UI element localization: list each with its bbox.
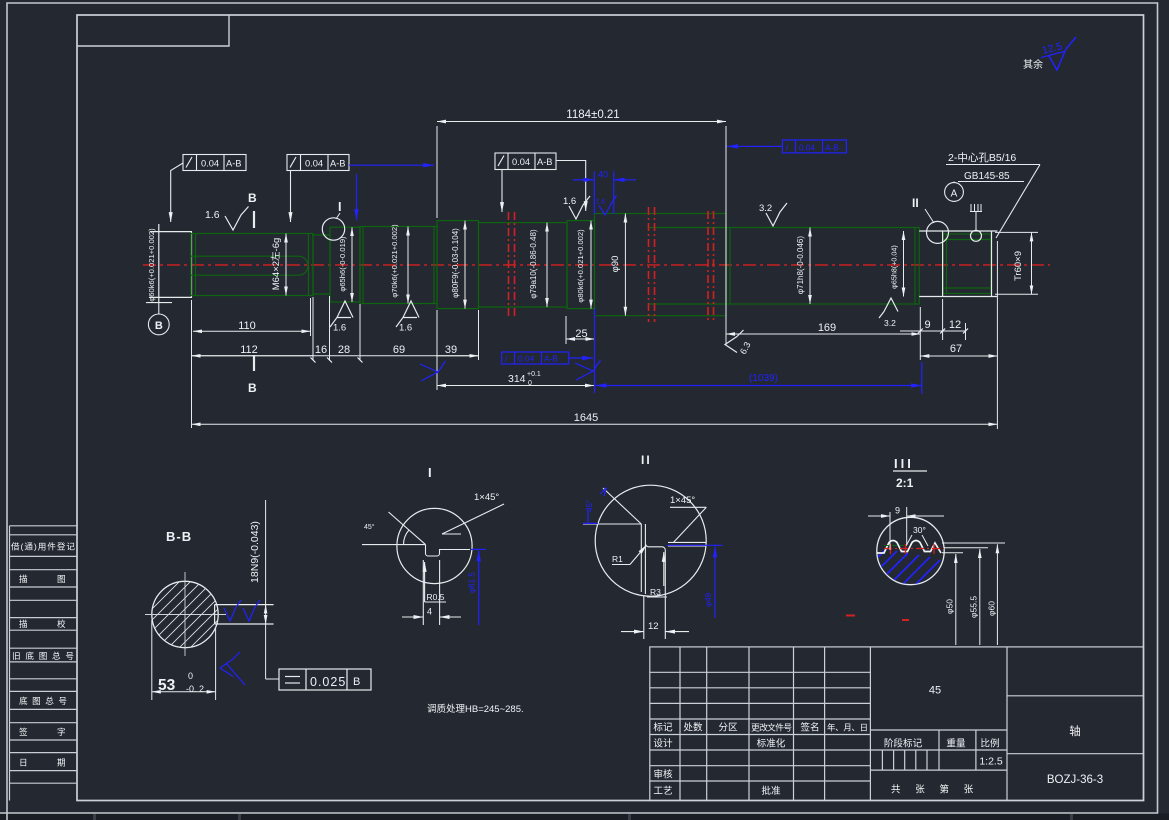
svg-text:1×45°: 1×45° (474, 492, 499, 503)
svg-text:字: 字 (57, 726, 66, 737)
svg-text:调质处理HB=245~285.: 调质处理HB=245~285. (427, 703, 524, 715)
svg-text:169: 169 (818, 322, 836, 334)
dim 1184 extension lines (436, 126, 438, 218)
leader diagonal from note to shaft end (996, 165, 1040, 239)
svg-text:φ79a10(-0.86-0.48): φ79a10(-0.86-0.48) (529, 229, 538, 299)
phi65 dim line (351, 227, 353, 302)
B-B centerlines (145, 572, 226, 656)
roughness symbols (white) (225, 196, 898, 353)
svg-text:1:2.5: 1:2.5 (979, 756, 1003, 768)
svg-text:BOZJ-36-3: BOZJ-36-3 (1047, 774, 1103, 786)
svg-text:+0.1: +0.1 (527, 371, 541, 378)
title block grid (650, 647, 1144, 801)
svg-text:1.6: 1.6 (205, 209, 220, 221)
section cut B-B marks (253, 211, 255, 371)
phi90 dim line (624, 214, 626, 316)
svg-text:B-B: B-B (166, 529, 192, 544)
Tr60x9 worm thread section (943, 234, 991, 294)
svg-text:φ60: φ60 (987, 601, 997, 616)
rotated diameter texts (147, 224, 1024, 303)
svg-text:期: 期 (57, 758, 66, 768)
hidden keyway edges phi90 section left (648, 207, 650, 322)
svg-text:45°: 45° (585, 500, 594, 512)
svg-text:0.04: 0.04 (512, 157, 530, 167)
left strip labels (11, 541, 75, 768)
svg-text:12: 12 (648, 621, 659, 632)
svg-text:0: 0 (528, 380, 532, 387)
leaders of GD&T frames (171, 163, 183, 222)
svg-text:A-B: A-B (330, 159, 346, 169)
svg-text:重量: 重量 (946, 738, 966, 750)
svg-text:签名: 签名 (800, 722, 819, 734)
svg-text:3.2: 3.2 (884, 318, 896, 328)
svg-text:φ80F9(-0.03-0.104): φ80F9(-0.03-0.104) (451, 228, 460, 298)
svg-text:1.6: 1.6 (399, 323, 412, 334)
svg-text:标记: 标记 (653, 722, 673, 734)
svg-text:工艺: 工艺 (653, 786, 672, 797)
svg-text:φ65h6(-0-0.019): φ65h6(-0-0.019) (338, 236, 347, 292)
svg-text:A-B: A-B (537, 157, 553, 167)
other-surfaces roughness note top-right (1023, 37, 1076, 71)
svg-text:II: II (912, 196, 919, 210)
detail I circle on groove (322, 218, 344, 240)
phi80k6 dim line (590, 221, 592, 309)
svg-text:314: 314 (508, 373, 526, 385)
svg-text:67: 67 (950, 343, 962, 355)
blue dims detail II (583, 488, 722, 619)
svg-text:30°: 30° (913, 525, 926, 535)
svg-text:分区: 分区 (718, 723, 738, 734)
svg-text:年、月、日: 年、月、日 (827, 723, 868, 733)
phi50/55.5/60 dims (942, 543, 1005, 645)
detail II circle (927, 221, 949, 243)
svg-text:0.04: 0.04 (518, 354, 535, 364)
svg-text:图: 图 (57, 574, 66, 584)
svg-text:18N9(-0.043): 18N9(-0.043) (249, 521, 261, 583)
svg-text:0.04: 0.04 (305, 159, 323, 169)
blue GD&T frame lower (502, 352, 569, 364)
svg-text:日: 日 (19, 758, 28, 768)
hidden keyway lines in phi90 section (649, 227, 726, 229)
svg-text:φ50: φ50 (945, 599, 955, 614)
svg-text:Tr60×9: Tr60×9 (1013, 251, 1024, 281)
svg-text:阶段标记: 阶段标记 (884, 738, 923, 750)
svg-text:比例: 比例 (980, 738, 999, 750)
left signature strip (10, 526, 78, 801)
shaft green outline sections (191, 214, 991, 316)
section phi79a10 (479, 223, 568, 307)
B-B circle (152, 581, 218, 647)
section phi90 (595, 214, 727, 316)
dim 9 detail III (868, 507, 944, 550)
svg-text:3.2: 3.2 (759, 203, 772, 214)
svg-text:II: II (641, 453, 652, 467)
phi65h8 dim line (903, 231, 905, 297)
svg-text:I: I (338, 200, 341, 214)
svg-text:112: 112 (240, 344, 258, 356)
svg-text:φ49: φ49 (704, 592, 713, 607)
svg-text:0.025: 0.025 (310, 675, 346, 689)
svg-text:I: I (428, 465, 432, 480)
53 dim (152, 620, 216, 700)
svg-text:12: 12 (949, 319, 961, 331)
18N9 dim (266, 500, 279, 679)
svg-text:1.6: 1.6 (333, 323, 346, 334)
blue hatch in III (860, 549, 953, 613)
svg-text:4: 4 (427, 607, 432, 617)
svg-text:39: 39 (445, 344, 457, 356)
svg-text:更改文件号: 更改文件号 (751, 722, 792, 733)
blue phi61.5 dim (471, 549, 486, 625)
svg-text:45°: 45° (364, 523, 375, 531)
svg-text:B: B (248, 191, 257, 205)
svg-text:2:1: 2:1 (896, 476, 914, 490)
detail III small circle (971, 230, 982, 241)
svg-text:69: 69 (393, 344, 405, 356)
section M64 thread (191, 234, 313, 296)
svg-text:处数: 处数 (683, 722, 703, 734)
svg-text:9: 9 (924, 319, 930, 331)
section 28 phi65 (330, 227, 360, 302)
svg-text:M64×2左-6g: M64×2左-6g (270, 238, 282, 291)
svg-text:53: 53 (158, 677, 176, 694)
top-left accessory box (77, 15, 229, 46)
svg-text:1.6: 1.6 (563, 196, 576, 207)
hidden keyway edges phi90 section right (707, 211, 709, 320)
symmetry tolerance frame 0.025 B (279, 669, 371, 690)
svg-text:批准: 批准 (761, 785, 781, 797)
blue leader arrows near box2 (349, 164, 434, 166)
section 39 phi80F9 (437, 221, 479, 309)
svg-text:R1: R1 (612, 554, 623, 564)
svg-text:R0.5: R0.5 (427, 592, 445, 602)
blue checks on B-B keyway (220, 600, 260, 685)
shaft left stub (white outline, phi60k6 journal) (149, 224, 192, 302)
hidden keyway edges (red double dashed) phi79 section (509, 207, 714, 322)
svg-text:其余: 其余 (1023, 58, 1043, 71)
blue keyway dim 40 (593, 171, 595, 214)
svg-text:审核: 审核 (653, 769, 673, 781)
svg-text:轴: 轴 (1069, 724, 1081, 738)
red centerline in III (884, 544, 944, 554)
svg-text:2-中心孔B5/16: 2-中心孔B5/16 (948, 151, 1016, 164)
svg-text:描: 描 (19, 573, 28, 584)
svg-text:28: 28 (338, 344, 350, 356)
svg-text:B: B (248, 381, 257, 395)
svg-text:设计: 设计 (653, 738, 673, 750)
dim 169 (726, 333, 920, 335)
M64 vertical dim line (285, 234, 287, 296)
section 16 (313, 235, 330, 294)
svg-text:110: 110 (238, 320, 256, 332)
section phi80k6 (567, 221, 595, 309)
phi71h8 dim line (809, 228, 811, 305)
chain dim line 112/16/28/69/39 (192, 355, 479, 357)
svg-text:B: B (155, 320, 163, 332)
svg-text:A-B: A-B (825, 143, 839, 153)
svg-text:φ70k6(+0.021+0.002): φ70k6(+0.021+0.002) (390, 224, 399, 298)
section phi71h8 (726, 228, 919, 305)
svg-text:1184±0.21: 1184±0.21 (566, 109, 619, 121)
svg-text:借(通)用件登记: 借(通)用件登记 (11, 541, 75, 552)
svg-text:φ65h8(+0.04): φ65h8(+0.04) (890, 245, 899, 289)
dim 1184 line (437, 121, 726, 123)
thread profile (877, 541, 941, 554)
datum B symbol below left stub (146, 303, 172, 335)
svg-text:A: A (951, 189, 958, 200)
stray red dashes (846, 616, 909, 621)
dim 25 (565, 316, 567, 344)
blue GD&T frame top (782, 140, 846, 153)
svg-text:A-B: A-B (226, 159, 242, 169)
section 69 phi70k6 (360, 227, 437, 304)
svg-text:9: 9 (895, 506, 900, 516)
bottom window strip (0, 814, 1169, 820)
svg-text:φ55.5: φ55.5 (969, 596, 979, 618)
svg-text:25: 25 (575, 328, 587, 340)
keyway slot in M64 section (191, 256, 308, 275)
dimension texts (238, 109, 962, 424)
blue roughness checks (599, 196, 617, 216)
phi70k6 dim line (407, 227, 409, 304)
dim 12 (943, 330, 966, 332)
svg-text:40: 40 (598, 170, 608, 180)
centerline (red dash-dot) (143, 264, 1050, 266)
svg-text:A-B: A-B (544, 354, 558, 364)
dim 314 (436, 360, 438, 390)
dim 9 (groove) (920, 330, 942, 332)
datum A circle (945, 183, 964, 202)
dim 1645 (192, 423, 998, 425)
svg-text:1645: 1645 (574, 412, 598, 424)
svg-text:描: 描 (19, 618, 28, 629)
svg-text:φ90: φ90 (610, 256, 621, 273)
dim 67 (920, 355, 997, 357)
svg-text:0.04: 0.04 (201, 159, 219, 169)
svg-text:B: B (353, 676, 360, 688)
phi79a10 dim line (546, 223, 548, 307)
svg-text:φ61.5: φ61.5 (468, 572, 477, 593)
right end groove outline (white) (919, 231, 997, 297)
svg-text:R3: R3 (650, 587, 661, 597)
title block texts (653, 722, 1080, 798)
phi80F9 dim line (464, 221, 466, 309)
blue vertical ext at end of phi80k6 (594, 309, 596, 393)
svg-text:45: 45 (929, 685, 941, 697)
svg-text:(1039): (1039) (749, 373, 778, 384)
svg-text:签: 签 (19, 726, 28, 737)
GD&T frames (white) (171, 153, 586, 222)
blue reference dim (1039) (596, 385, 922, 387)
B-B keyway slot (215, 605, 274, 624)
svg-text:GB145-85: GB145-85 (964, 171, 1010, 182)
Tr60x9 vertical dim (995, 231, 1038, 233)
svg-text:0: 0 (188, 671, 193, 681)
svg-text:III: III (894, 456, 914, 471)
svg-text:φ60k6(+0.021+0.002): φ60k6(+0.021+0.002) (147, 228, 156, 302)
dim 110 line (193, 330, 311, 332)
svg-text:0.04: 0.04 (799, 143, 816, 153)
svg-text:φ80k6(+0.021+0.002): φ80k6(+0.021+0.002) (576, 229, 585, 303)
svg-text:-0. 2: -0. 2 (186, 684, 204, 694)
svg-text:1×45°: 1×45° (670, 495, 695, 506)
svg-text:标准化: 标准化 (757, 738, 786, 750)
svg-text:校: 校 (57, 618, 66, 629)
svg-text:共 张 第 张: 共 张 第 张 (891, 784, 979, 796)
B-B hatch (128, 538, 245, 710)
detail III flag (970, 204, 982, 230)
svg-text:1.6: 1.6 (596, 199, 605, 206)
svg-text:16: 16 (315, 344, 327, 356)
svg-text:φ71h8(-0-0.046): φ71h8(-0-0.046) (796, 236, 805, 294)
